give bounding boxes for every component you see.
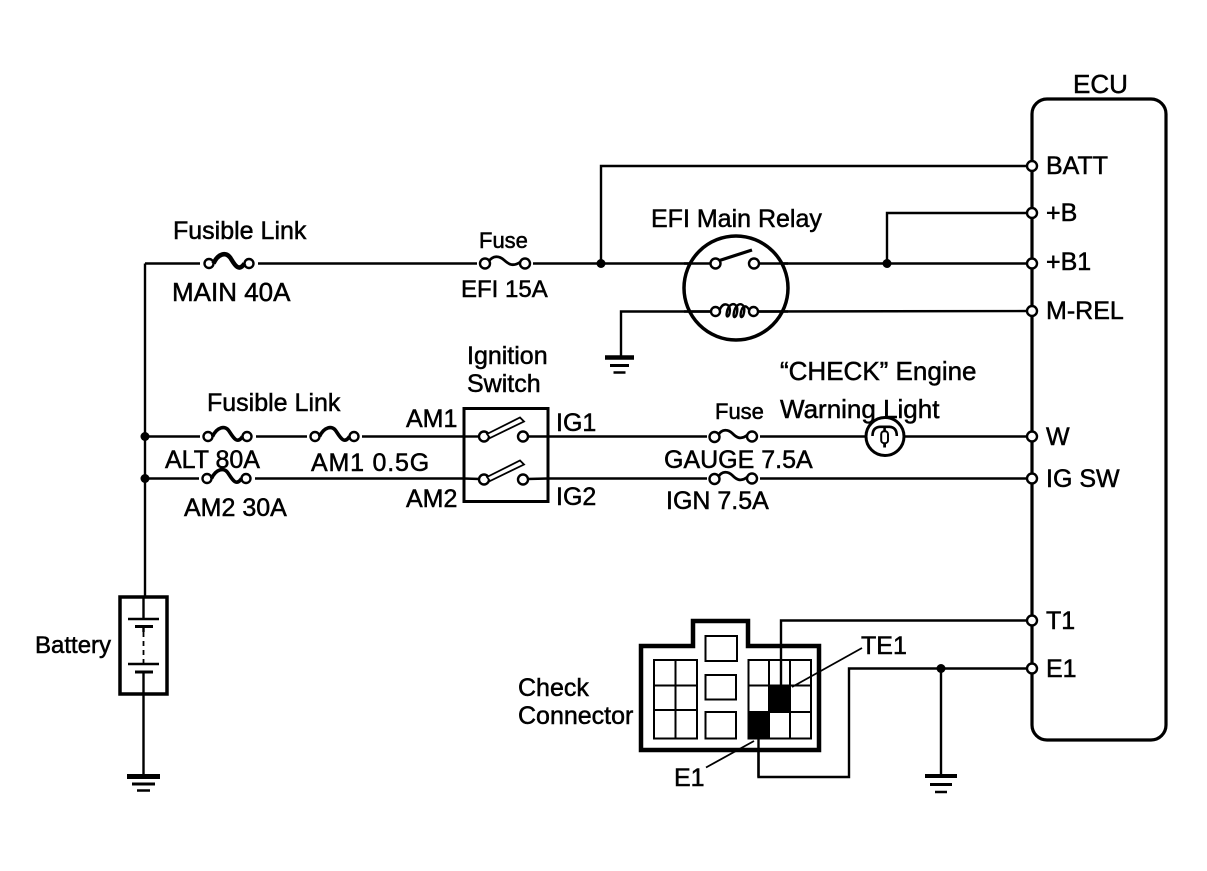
- svg-text:E1: E1: [1046, 655, 1077, 683]
- junction dot at +B tap: [883, 259, 892, 268]
- svg-text:Fuse: Fuse: [479, 228, 528, 253]
- junction dot row1 at bus: [141, 432, 150, 441]
- svg-text:+B1: +B1: [1046, 248, 1091, 276]
- wire relay coil to ground: [621, 312, 711, 357]
- switch pole AM1-IG1: [464, 435, 480, 437]
- wire T1 net: [781, 621, 1032, 696]
- svg-text:Switch: Switch: [467, 370, 541, 398]
- wire battery to ground: [142, 694, 144, 775]
- svg-text:Connector: Connector: [518, 702, 633, 730]
- fuse EFI 15A: [461, 228, 548, 303]
- svg-text:BATT: BATT: [1046, 152, 1108, 180]
- svg-text:Fusible Link: Fusible Link: [207, 389, 341, 417]
- svg-text:Ignition: Ignition: [467, 342, 548, 370]
- pin T1: [1027, 607, 1075, 635]
- svg-text:IG SW: IG SW: [1046, 465, 1120, 493]
- middle cells: [706, 636, 738, 661]
- pin E1: [1027, 655, 1077, 683]
- ground (battery): [127, 777, 160, 791]
- wire M-REL net: [758, 310, 1032, 313]
- svg-text:T1: T1: [1046, 607, 1075, 635]
- wire E1 net: [759, 669, 1033, 778]
- pin BATT: [1027, 152, 1108, 180]
- svg-text:IGN 7.5A: IGN 7.5A: [666, 487, 769, 515]
- fuse IGN 7.5A: [666, 472, 769, 515]
- svg-text:TE1: TE1: [861, 632, 907, 660]
- pin IG SW: [1027, 465, 1120, 493]
- svg-text:E1: E1: [674, 764, 705, 792]
- svg-text:IG1: IG1: [556, 409, 596, 437]
- svg-text:GAUGE 7.5A: GAUGE 7.5A: [664, 446, 813, 474]
- svg-text:“CHECK” Engine: “CHECK” Engine: [780, 356, 977, 386]
- relay coil: [684, 310, 713, 312]
- svg-text:Battery: Battery: [35, 632, 111, 659]
- ECU U1: [1032, 69, 1166, 740]
- wire +B net: [887, 213, 1032, 264]
- wire +B1 row through relay: [684, 262, 788, 264]
- svg-text:M-REL: M-REL: [1046, 297, 1124, 325]
- ignition switch SW1: [406, 342, 596, 513]
- pin M-REL: [1027, 297, 1124, 325]
- junction dot E1/ground tap: [937, 664, 946, 673]
- wire T1 inside connector: [780, 646, 782, 692]
- wire BATT net: [601, 166, 1032, 264]
- fusible link AM1 0.5G: [307, 428, 430, 477]
- svg-text:MAIN 40A: MAIN 40A: [172, 277, 291, 307]
- svg-text:Fuse: Fuse: [715, 399, 764, 424]
- pin W: [1027, 423, 1070, 451]
- junction dot row2 at bus: [141, 474, 150, 483]
- wire AM1/W row: [145, 435, 1032, 437]
- svg-text:EFI 15A: EFI 15A: [461, 276, 548, 303]
- leader TE1: [792, 648, 862, 687]
- terminal E1 (filled): [749, 712, 770, 739]
- svg-text:+B: +B: [1046, 199, 1077, 227]
- svg-text:Check: Check: [518, 674, 589, 702]
- svg-text:ALT 80A: ALT 80A: [165, 446, 260, 474]
- terminal TE1 (filled): [769, 686, 790, 713]
- svg-text:AM2 30A: AM2 30A: [184, 494, 287, 522]
- switch pole AM2-IG2: [464, 477, 480, 480]
- fusible link AM2 30A: [184, 470, 287, 522]
- wire AM2/IG SW row: [145, 477, 1032, 479]
- svg-text:AM1: AM1: [406, 405, 457, 433]
- wire left vertical bus to battery: [144, 264, 146, 599]
- svg-text:W: W: [1046, 423, 1070, 451]
- ground (relay coil): [605, 358, 634, 373]
- svg-text:Warning Light: Warning Light: [780, 394, 940, 424]
- wire E1 inside connector: [757, 736, 759, 777]
- fusible link ALT 80A: [165, 389, 341, 474]
- right cell block: [749, 660, 812, 739]
- wire E1 tap to ground: [940, 669, 942, 775]
- lamp "CHECK" Engine Warning Light: [780, 356, 977, 456]
- wire main +B1 row: [145, 262, 1032, 264]
- pin +B: [1027, 199, 1077, 227]
- junction dot at EFI fuse / BATT tap: [597, 259, 606, 268]
- leader E1: [706, 741, 754, 768]
- check connector J1: [518, 621, 907, 792]
- svg-text:AM1 0.5G: AM1 0.5G: [311, 449, 430, 477]
- battery B1: [35, 597, 167, 694]
- relay contact: [711, 259, 721, 269]
- EFI Main Relay K1: [651, 205, 822, 340]
- svg-text:Fusible Link: Fusible Link: [173, 217, 307, 245]
- svg-text:IG2: IG2: [556, 483, 596, 511]
- left cell block: [654, 660, 697, 739]
- svg-text:AM2: AM2: [406, 485, 457, 513]
- fusible link MAIN 40A: [172, 217, 307, 307]
- pin +B1: [1027, 248, 1091, 276]
- ground (check connector): [925, 776, 957, 792]
- fuse GAUGE 7.5A: [664, 399, 813, 474]
- svg-text:ECU: ECU: [1073, 69, 1128, 99]
- svg-text:EFI Main Relay: EFI Main Relay: [651, 205, 822, 233]
